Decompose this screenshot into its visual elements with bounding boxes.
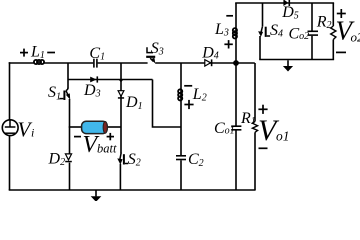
- svg-text:C1: C1: [89, 45, 105, 63]
- svg-text:S3: S3: [151, 40, 164, 57]
- svg-text:o2: o2: [351, 29, 360, 44]
- svg-text:D5: D5: [281, 4, 299, 22]
- svg-text:D1: D1: [125, 94, 143, 112]
- svg-text:Co1: Co1: [214, 120, 235, 137]
- svg-text:Co2: Co2: [289, 25, 310, 42]
- svg-text:D3: D3: [83, 82, 101, 100]
- svg-text:R2: R2: [316, 14, 332, 31]
- svg-text:S1: S1: [48, 84, 61, 103]
- svg-text:L2: L2: [192, 86, 207, 104]
- svg-text:C2: C2: [188, 151, 204, 169]
- svg-text:S2: S2: [128, 151, 141, 169]
- svg-text:i: i: [31, 126, 34, 140]
- svg-text:R1: R1: [240, 110, 256, 127]
- svg-text:D2: D2: [48, 150, 66, 168]
- svg-text:S4: S4: [270, 22, 283, 40]
- svg-text:D4: D4: [201, 45, 219, 62]
- svg-text:L1: L1: [30, 43, 45, 61]
- svg-text:o1: o1: [276, 129, 290, 144]
- svg-text:batt: batt: [97, 142, 117, 156]
- svg-text:L3: L3: [214, 21, 229, 39]
